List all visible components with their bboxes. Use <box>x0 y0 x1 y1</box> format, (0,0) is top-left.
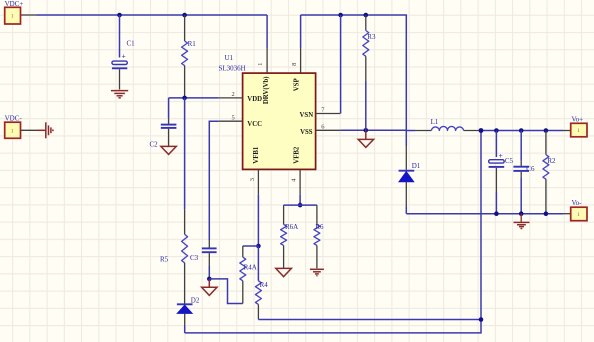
inductor L1 <box>406 118 481 130</box>
port Vo+ <box>571 115 587 137</box>
svg-text:R3: R3 <box>367 33 376 41</box>
node C5 top junction <box>494 128 499 133</box>
node R2 bottom junction <box>544 211 549 216</box>
svg-text:SL3036H: SL3036H <box>219 64 246 72</box>
diode D2 <box>177 297 200 333</box>
svg-text:R4A: R4A <box>244 264 257 272</box>
diode D1 <box>399 130 421 213</box>
wire top rail segment 2 <box>301 15 407 130</box>
svg-text:VDC-: VDC- <box>5 115 23 123</box>
capacitor C6 <box>513 131 535 214</box>
port VDC- <box>5 115 23 139</box>
power ground (sideways bar style) at VDC- <box>37 122 53 138</box>
wire VDC- to ground <box>21 129 38 131</box>
svg-text:U1: U1 <box>225 54 234 62</box>
node C1 top junction <box>117 13 122 18</box>
svg-text:VFB2: VFB2 <box>294 146 301 164</box>
node R4 feedback junction <box>479 317 484 322</box>
resistor R1 <box>182 15 197 98</box>
node R3 rail junction <box>364 13 369 18</box>
svg-text:D2: D2 <box>191 297 200 305</box>
svg-text:VSP: VSP <box>294 78 301 91</box>
resistor R3 <box>363 15 376 130</box>
resistor R6 <box>314 205 324 268</box>
resistor R2 <box>543 131 556 214</box>
svg-text:C1: C1 <box>127 40 136 48</box>
wire pin3 node to R4A <box>243 245 259 247</box>
svg-text:5: 5 <box>232 115 235 122</box>
node VSS/R3 junction <box>364 128 369 133</box>
svg-text:R1: R1 <box>188 40 197 48</box>
node R2 top junction <box>544 128 549 133</box>
capacitor C5 <box>489 131 514 214</box>
svg-text:C2: C2 <box>150 140 159 148</box>
node C6 bottom junction <box>519 211 524 216</box>
ground (triangle) below C2 <box>161 146 176 154</box>
resistor R5 <box>160 209 188 303</box>
svg-text:+: + <box>122 52 126 61</box>
wire output top rail <box>481 130 571 132</box>
resistor R4 <box>255 246 268 320</box>
resistor R6A <box>281 205 299 268</box>
IC U1 body <box>219 54 316 169</box>
svg-text:Vo-: Vo- <box>572 199 583 207</box>
pin 6 lead (VSS) <box>316 124 407 131</box>
pin 5 lead (VCC) <box>209 115 242 249</box>
node C6 top junction <box>519 128 524 133</box>
svg-text:VDD: VDD <box>247 96 262 103</box>
svg-text:R6: R6 <box>315 223 324 231</box>
pin 2 lead (VDD) <box>169 91 243 98</box>
node VSN rail junction <box>338 13 343 18</box>
node pin4 junction <box>298 203 303 208</box>
node C5 bottom junction <box>494 211 499 216</box>
svg-text:+: + <box>499 151 503 160</box>
wire R4 bottom to feedback vertical <box>258 319 481 321</box>
svg-text:VDC+: VDC+ <box>5 0 24 8</box>
svg-text:Vo+: Vo+ <box>572 115 584 123</box>
node pin3 junction <box>256 244 261 249</box>
wire C3 node to R4A bottom <box>209 279 243 304</box>
resistor R4A <box>240 246 257 304</box>
wire VDC+ rail (top rail segment 1) <box>21 14 268 16</box>
svg-text:2: 2 <box>232 91 235 98</box>
svg-text:R2: R2 <box>547 157 556 165</box>
wire pin4 node branches <box>284 204 317 206</box>
node C3 bottom junction <box>207 277 212 282</box>
svg-text:DRV(Vb): DRV(Vb) <box>263 76 270 104</box>
svg-text:R4: R4 <box>260 281 269 289</box>
ground (triangle) below C3 <box>202 279 217 296</box>
svg-text:VFB1: VFB1 <box>253 146 260 164</box>
svg-text:D1: D1 <box>412 162 421 170</box>
svg-text:C6: C6 <box>526 165 535 173</box>
svg-text:C3: C3 <box>190 254 199 262</box>
pin 7 lead (VSN) <box>316 15 341 114</box>
ground (triangle) below R6A <box>276 268 292 276</box>
svg-text:3: 3 <box>249 178 256 181</box>
capacitor C3 <box>190 248 217 279</box>
capacitor C1 <box>112 15 135 90</box>
ground (triangle) below VSS junction <box>358 130 373 147</box>
svg-text:C5: C5 <box>505 157 514 165</box>
ground (bar style) below R6 <box>310 269 324 275</box>
wire bottom rail <box>185 131 481 333</box>
pin 1 lead (DRV) <box>257 15 267 73</box>
node R1 top junction <box>182 13 187 18</box>
svg-text:R6A: R6A <box>285 223 298 231</box>
svg-text:VCC: VCC <box>247 121 262 128</box>
svg-text:VSS: VSS <box>300 129 313 136</box>
node VDD junction (R1/R5/C2) <box>182 96 187 101</box>
ground (bar style) below mid rail <box>514 214 530 229</box>
svg-text:VSN: VSN <box>300 112 314 119</box>
wire mid rail (Vo- net) <box>406 213 570 215</box>
pin 3 lead (VFB1) <box>249 169 258 246</box>
ground (bar style) below C1 <box>111 91 128 98</box>
wire VDD node down to R5 <box>184 98 186 209</box>
svg-text:8: 8 <box>291 63 298 66</box>
port VDC+ <box>5 0 24 24</box>
svg-text:L1: L1 <box>431 118 439 126</box>
pin 8 lead (VSP) <box>291 15 301 73</box>
capacitor C2 <box>150 98 177 148</box>
svg-text:R5: R5 <box>160 255 169 263</box>
port Vo- <box>571 199 587 221</box>
svg-text:1: 1 <box>257 63 264 66</box>
pin 4 lead (VFB2) <box>291 169 300 205</box>
node L1/feedback junction <box>479 128 484 133</box>
